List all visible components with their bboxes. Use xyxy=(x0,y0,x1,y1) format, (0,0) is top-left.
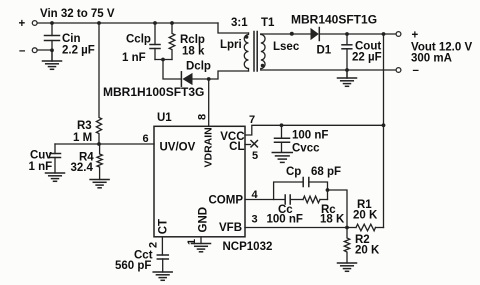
capacitor Cvcc xyxy=(275,125,329,154)
svg-text:R3: R3 xyxy=(77,120,92,132)
svg-text:VFB: VFB xyxy=(219,222,242,234)
node Rclp top xyxy=(170,21,174,25)
wire comp top branch right xyxy=(309,182,328,200)
ground GND pin xyxy=(192,244,211,252)
resistor R3 xyxy=(73,23,102,144)
ground input xyxy=(43,51,62,70)
wire Cc to Rc xyxy=(290,199,303,201)
resistor R4 xyxy=(71,144,103,180)
svg-text:Dclp: Dclp xyxy=(186,61,211,73)
wire comp top branch left xyxy=(274,182,303,200)
node VCC/feedback xyxy=(382,123,386,127)
node comp network xyxy=(326,188,330,192)
wire COMP pin 4 xyxy=(245,199,285,201)
wire comp node to VFB node xyxy=(328,190,348,228)
svg-text:–: – xyxy=(413,65,420,77)
ground Cvcc xyxy=(272,153,292,163)
svg-text:T1: T1 xyxy=(261,17,275,29)
node Cin top xyxy=(50,21,54,25)
ground output xyxy=(338,70,357,86)
wire secondary top xyxy=(261,33,311,35)
node Cclp top xyxy=(153,21,157,25)
transformer secondary Lsec xyxy=(261,34,300,70)
capacitor Cclp xyxy=(122,23,160,64)
capacitor Cuv xyxy=(29,144,61,173)
svg-text:68 pF: 68 pF xyxy=(311,166,341,178)
node clamp bottom xyxy=(161,58,165,62)
node Cout top xyxy=(345,32,349,36)
wire diode to + terminal xyxy=(320,33,396,35)
polarity dot secondary xyxy=(261,64,265,68)
resistor R2 xyxy=(344,228,380,264)
diode D1 xyxy=(311,28,332,57)
svg-text:100 nF: 100 nF xyxy=(267,214,303,226)
svg-text:18 K: 18 K xyxy=(320,214,345,226)
wire UV/OV line xyxy=(55,143,154,145)
wire feedback vertical xyxy=(383,34,385,228)
node R3/R4 xyxy=(97,142,101,146)
node VFB divider xyxy=(345,226,349,230)
wire Vin rail xyxy=(37,22,218,24)
node R3 top xyxy=(97,21,101,25)
capacitor Cc xyxy=(267,195,303,226)
svg-text:Rclp: Rclp xyxy=(180,34,205,46)
capacitor Cct xyxy=(115,250,168,273)
capacitor Cin xyxy=(45,23,95,57)
transformer T1 primary Lpri xyxy=(220,33,249,71)
svg-text:1 nF: 1 nF xyxy=(122,52,146,64)
capacitor Cout xyxy=(342,34,382,70)
svg-text:Cp: Cp xyxy=(286,166,301,178)
svg-text:+: + xyxy=(19,18,26,30)
svg-text:1 nF: 1 nF xyxy=(29,161,53,173)
svg-text:Cvcc: Cvcc xyxy=(292,143,320,155)
svg-text:Cuv: Cuv xyxy=(30,150,52,162)
svg-text:2.2 µF: 2.2 µF xyxy=(62,45,95,57)
node feedback top xyxy=(382,32,386,36)
svg-text:100 nF: 100 nF xyxy=(292,130,328,142)
IC U1 NCP1032 xyxy=(154,126,245,237)
svg-text:Cin: Cin xyxy=(62,33,81,45)
svg-text:1 M: 1 M xyxy=(73,132,92,144)
terminal + input xyxy=(32,21,37,26)
svg-text:UV/OV: UV/OV xyxy=(160,142,196,154)
resistor Rclp xyxy=(169,23,205,60)
svg-text:7: 7 xyxy=(249,114,255,126)
svg-text:Lsec: Lsec xyxy=(273,41,300,53)
node Cout bottom xyxy=(345,68,349,72)
resistor Rc xyxy=(303,196,345,225)
wire VCC pin 7 xyxy=(245,125,384,135)
wire diode to drain xyxy=(192,71,249,79)
polarity dot secondary top wire xyxy=(290,32,294,36)
resistor R1 xyxy=(347,199,384,231)
polarity dot primary xyxy=(245,35,249,39)
wire clamp to diode xyxy=(163,60,181,80)
svg-text:D1: D1 xyxy=(317,45,332,57)
terminal + output xyxy=(396,32,401,37)
wire GND pin 1 xyxy=(200,237,202,244)
svg-text:NCP1032: NCP1032 xyxy=(223,241,273,253)
svg-text:300 mA: 300 mA xyxy=(411,53,452,65)
transformer core xyxy=(253,32,255,72)
svg-text:Vin 32 to 75 V: Vin 32 to 75 V xyxy=(40,8,115,20)
svg-text:–: – xyxy=(19,45,26,57)
diode Dclp xyxy=(181,61,211,87)
svg-text:22 µF: 22 µF xyxy=(352,52,382,64)
svg-text:Cclp: Cclp xyxy=(126,34,151,46)
svg-text:U1: U1 xyxy=(157,112,172,124)
svg-text:5: 5 xyxy=(252,150,258,162)
ground Cct xyxy=(153,272,172,280)
svg-text:Lpri: Lpri xyxy=(220,39,242,51)
svg-text:20 K: 20 K xyxy=(353,210,378,222)
svg-text:CL: CL xyxy=(229,141,244,153)
capacitor Cp xyxy=(286,166,341,187)
svg-text:GND: GND xyxy=(198,207,210,233)
terminal - output xyxy=(396,68,401,73)
svg-text:560 pF: 560 pF xyxy=(115,260,151,272)
wire Rc to node xyxy=(320,199,328,201)
wire clamp bottom bar xyxy=(155,59,172,61)
wire primary top step xyxy=(218,23,249,33)
node drain xyxy=(207,77,211,81)
svg-text:+: + xyxy=(412,30,419,42)
svg-text:18 k: 18 k xyxy=(182,46,205,58)
wire minus input xyxy=(37,49,52,51)
svg-text:MBR1H100SFT3G: MBR1H100SFT3G xyxy=(103,85,204,99)
pin 5 CL no-connect xyxy=(245,141,258,163)
svg-text:32.4: 32.4 xyxy=(71,162,94,174)
svg-text:8: 8 xyxy=(197,114,209,120)
ground Cuv xyxy=(46,173,65,181)
svg-text:MBR140SFT1G: MBR140SFT1G xyxy=(291,13,377,27)
wire VFB pin 3 xyxy=(245,227,347,229)
wire VDRAIN drop pin 8 xyxy=(208,79,210,126)
svg-text:COMP: COMP xyxy=(209,195,244,207)
ground R4 xyxy=(90,180,109,188)
svg-text:3:1: 3:1 xyxy=(231,17,248,29)
wire secondary bottom xyxy=(261,69,396,71)
svg-text:6: 6 xyxy=(143,133,149,145)
node Cin bottom xyxy=(50,48,54,52)
svg-text:CT: CT xyxy=(158,219,170,234)
wire CT pin 2 xyxy=(161,237,163,255)
svg-text:2: 2 xyxy=(148,242,160,248)
node Cvcc top xyxy=(280,123,284,127)
svg-text:20 K: 20 K xyxy=(355,245,380,257)
terminal - input xyxy=(32,48,37,53)
ground R2 xyxy=(338,263,357,271)
svg-text:3: 3 xyxy=(252,214,258,226)
svg-text:VDRAIN: VDRAIN xyxy=(203,127,215,167)
svg-text:4: 4 xyxy=(252,189,259,201)
